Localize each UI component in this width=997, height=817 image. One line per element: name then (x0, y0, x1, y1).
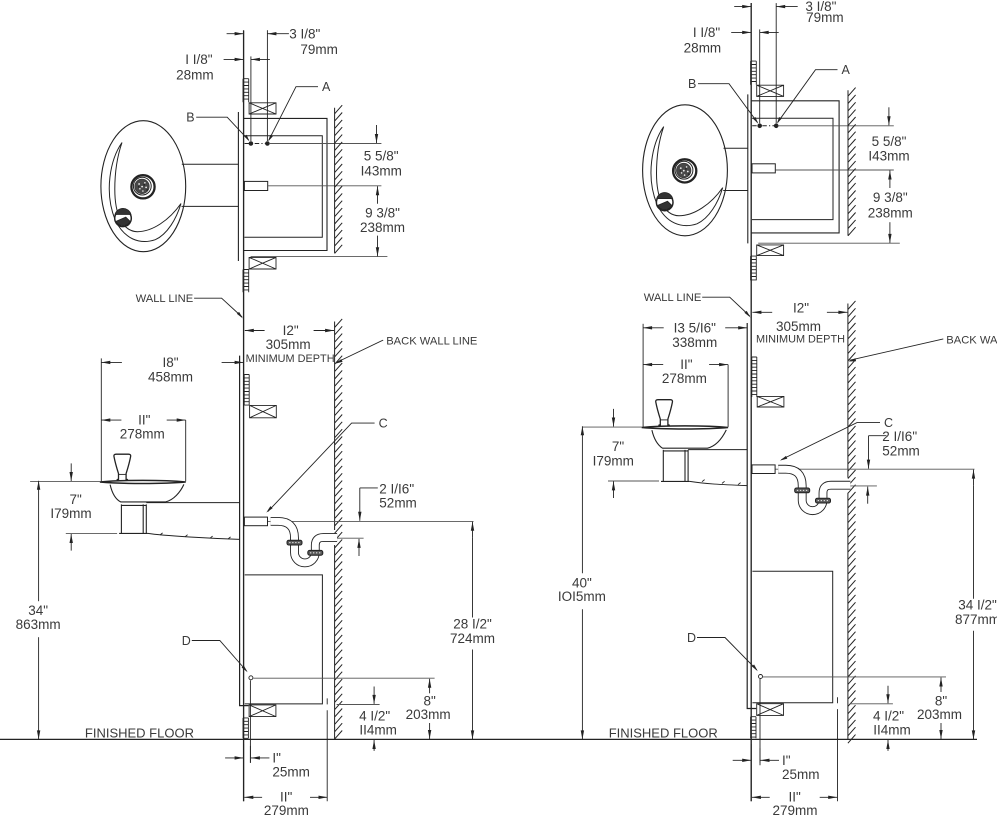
dimension 12in 305mm minimum depth (245, 329, 254, 332)
svg-text:305mm: 305mm (266, 337, 311, 352)
lower rough-in cabinet (245, 575, 323, 704)
leader for WALL LINE (194, 298, 242, 317)
cabinet right flange (326, 698, 328, 801)
dimension 12in 305mm minimum depth (752, 311, 761, 314)
bubbler base joint (119, 473, 127, 475)
svg-text:203mm: 203mm (917, 707, 962, 722)
drain line extension below floor (249, 746, 251, 763)
svg-text:2 I/I6": 2 I/I6" (379, 481, 414, 496)
dimension 5 5/8in 143mm (375, 134, 378, 143)
drain line extension below floor (759, 748, 761, 765)
svg-text:52mm: 52mm (882, 443, 920, 458)
svg-text:I43mm: I43mm (361, 163, 402, 178)
leader for A (778, 70, 838, 123)
drain strainer (plan) outer ring (131, 175, 154, 198)
dimension 9 3/8in 238mm (888, 171, 891, 180)
bowl body (side view) (652, 430, 726, 448)
dimension 8in 203mm (428, 679, 431, 688)
svg-text:79mm: 79mm (806, 10, 844, 25)
wall line upper extension (243, 29, 245, 31)
back wall (side) hatched line (335, 319, 343, 740)
point B marker (249, 142, 253, 146)
lower arm reference line (66, 533, 117, 535)
dimension 11in 278mm (101, 418, 110, 421)
bowl interior crescent shadow (109, 143, 181, 242)
svg-text:458mm: 458mm (148, 369, 193, 384)
dimension 34 I/2" 877mm (972, 470, 975, 479)
P-trap piping (778, 469, 850, 510)
svg-text:4 I/2": 4 I/2" (359, 709, 390, 724)
svg-text:BACK WALL LINE: BACK WALL LINE (946, 334, 997, 346)
svg-text:52mm: 52mm (379, 496, 417, 511)
dimension 2 1/16in 52mm (869, 435, 887, 437)
wood blocking at cabinet bottom (249, 705, 276, 717)
reference line box bottom level (251, 256, 388, 258)
wall line (full height) (243, 31, 245, 802)
reference line box bottom level (758, 242, 900, 244)
dimension I3 5/I6" 338mm (643, 326, 652, 329)
bracket line lower (bowl to wall) (182, 205, 239, 207)
drain shroud below bowl (119, 504, 148, 533)
bowl rim (side view) (642, 426, 728, 429)
lower arm reference line (608, 480, 659, 482)
water supply fitting stub (plan) (752, 164, 775, 173)
svg-text:I8": I8" (162, 355, 178, 370)
svg-text:28mm: 28mm (684, 40, 722, 55)
svg-text:C: C (379, 417, 388, 431)
svg-text:7": 7" (70, 492, 83, 507)
dimension 1in 25mm (235, 756, 244, 759)
cabinet bottom reference line (337, 704, 380, 706)
back wall (plan) hatched line (848, 88, 856, 236)
svg-text:279mm: 279mm (772, 803, 817, 817)
drain strainer speckled core (677, 163, 691, 177)
svg-text:I2": I2" (793, 301, 809, 316)
threaded rod (side view) (244, 375, 249, 406)
dimension 8in 203mm (939, 678, 942, 687)
reference line 9 3/8 level (268, 185, 382, 187)
leader for BACK WALL LINE (336, 340, 383, 363)
dimension 5 5/8in 143mm (887, 116, 890, 125)
wall line upper extension (750, 2, 752, 4)
arm bottom curve to wall (148, 533, 240, 539)
trap outlet reference line (850, 485, 877, 487)
svg-text:MINIMUM DEPTH: MINIMUM DEPTH (246, 353, 335, 365)
threaded rod above blocking (plan) (751, 61, 757, 85)
extension line at point A (266, 30, 268, 141)
svg-text:724mm: 724mm (450, 631, 495, 646)
svg-text:3 I/8": 3 I/8" (289, 26, 320, 41)
svg-text:9 3/8": 9 3/8" (873, 190, 908, 205)
threaded rod (side view) (752, 357, 757, 397)
svg-text:I": I" (272, 751, 281, 766)
wood blocking lower (plan) (757, 245, 784, 256)
leader for C (268, 423, 375, 512)
dimension 7in 179mm (70, 472, 73, 481)
centerline A-B dashed (752, 125, 777, 127)
extension line at point B (250, 56, 252, 141)
back wall (plan) hatched line (335, 105, 343, 253)
fountain bowl (plan view) - oval rim (643, 105, 728, 236)
svg-text:I3 5/I6": I3 5/I6" (674, 320, 717, 335)
svg-text:4 I/2": 4 I/2" (873, 709, 904, 724)
reference line supply level (775, 468, 974, 470)
recessed unit inner box (plan) (752, 118, 833, 219)
dimension 11in 279mm bottom (752, 796, 761, 799)
leader for WALL LINE (702, 297, 750, 316)
dimension 28 I/2" 724mm (471, 522, 474, 531)
wall line (full height) (750, 3, 752, 801)
bubbler (side view) (114, 454, 131, 480)
leader for B (196, 117, 249, 140)
svg-text:I I/8": I I/8" (693, 25, 721, 40)
svg-text:305mm: 305mm (776, 319, 821, 334)
reference line 5 5/8 level (778, 125, 894, 127)
svg-text:5 5/8": 5 5/8" (872, 134, 907, 149)
wall extension below floor (243, 744, 245, 801)
bubbler (side view) (656, 400, 673, 426)
wood blocking (side view) (250, 405, 277, 417)
back wall (side) hatched line (848, 301, 856, 743)
svg-text:863mm: 863mm (16, 617, 61, 632)
arm bottom curve to wall (690, 481, 748, 485)
svg-text:25mm: 25mm (782, 767, 820, 782)
dimension 1 1/8in 28mm (235, 58, 244, 61)
mounting plate line (side view) (240, 356, 249, 706)
svg-text:A: A (322, 80, 331, 94)
svg-text:I2": I2" (283, 323, 299, 338)
svg-text:C: C (884, 416, 893, 430)
leader for A (269, 87, 318, 140)
svg-text:7": 7" (612, 439, 625, 454)
P-trap piping (271, 521, 338, 562)
svg-text:28 I/2": 28 I/2" (453, 617, 492, 632)
extension line bowl rear (727, 365, 729, 427)
svg-text:278mm: 278mm (662, 371, 707, 386)
svg-text:II": II" (138, 412, 151, 427)
slip nut lower (308, 550, 323, 555)
wood blocking (side view) (757, 396, 784, 407)
leader for BACK WALL LINE (849, 339, 943, 360)
dimension 34" 863mm (37, 481, 40, 490)
svg-text:877mm: 877mm (955, 612, 997, 627)
svg-text:79mm: 79mm (300, 42, 338, 57)
svg-text:A: A (842, 63, 851, 77)
bubbler base joint (660, 419, 668, 421)
dimension 3 1/8in 79mm (742, 5, 751, 8)
slip nut upper (287, 540, 302, 545)
wood blocking upper (plan) (249, 103, 276, 114)
reference line 5 5/8 level (269, 143, 382, 145)
slip nut upper (795, 488, 810, 493)
bracket line upper (bowl to wall) (724, 147, 748, 149)
svg-text:338mm: 338mm (672, 335, 717, 350)
recessed unit outer box (plan) (751, 101, 839, 233)
point A marker (774, 124, 778, 128)
cabinet bottom reference line (850, 703, 893, 705)
drain shroud below bowl (661, 450, 690, 482)
svg-text:I79mm: I79mm (50, 506, 91, 521)
wood blocking lower (plan) (249, 257, 276, 269)
line below D to floor (759, 679, 761, 763)
svg-text:WALL LINE: WALL LINE (136, 293, 194, 305)
lower rough-in cabinet (752, 571, 832, 702)
svg-text:FINISHED FLOOR: FINISHED FLOOR (85, 726, 194, 741)
supply stub through wall (244, 517, 267, 526)
svg-text:B: B (186, 111, 194, 125)
threaded rod below blocking (plan) (751, 256, 757, 280)
slip nut lower (816, 498, 831, 503)
svg-text:278mm: 278mm (120, 426, 165, 441)
leader for D (697, 638, 757, 670)
svg-text:25mm: 25mm (272, 765, 310, 780)
water supply fitting stub (plan) (244, 181, 267, 190)
svg-text:9 3/8": 9 3/8" (365, 205, 400, 220)
dimension 1 1/8in 28mm (742, 31, 751, 34)
reference line supply level (268, 520, 474, 522)
drain strainer (plan) outer ring (673, 159, 696, 182)
bracket line lower (bowl to wall) (723, 190, 748, 192)
svg-text:FINISHED FLOOR: FINISHED FLOOR (609, 726, 718, 741)
mounting plate (plan) (747, 94, 749, 243)
svg-text:II4mm: II4mm (359, 723, 397, 738)
svg-text:I I/8": I I/8" (185, 52, 213, 67)
arm top edge to wall (688, 449, 747, 451)
supply stub through wall (752, 465, 775, 474)
svg-text:WALL LINE: WALL LINE (644, 292, 702, 304)
arm bottom tick marks (702, 480, 741, 485)
threaded rod below blocking (plan) (243, 270, 249, 293)
bowl body (side view) (110, 484, 184, 502)
reference line D level (253, 677, 434, 679)
svg-text:D: D (182, 634, 191, 648)
rim reference line (left) (30, 481, 100, 483)
point D circle (249, 676, 253, 680)
svg-text:I": I" (782, 753, 791, 768)
point A marker (266, 142, 270, 146)
svg-text:II": II" (680, 357, 693, 372)
dimension 7in 179mm (612, 418, 615, 427)
wood blocking upper (plan) (757, 85, 784, 96)
line below D to floor (249, 680, 251, 762)
leader for B (698, 84, 758, 123)
wall extension below floor (750, 744, 752, 801)
dimension 9 3/8in 238mm (376, 186, 379, 195)
bowl rim (side view) (100, 480, 186, 483)
svg-text:BACK WALL LINE: BACK WALL LINE (386, 336, 477, 348)
recessed unit outer box (plan) (244, 118, 327, 250)
mounting plate line (side view) (747, 323, 756, 709)
leader for D (192, 641, 247, 672)
dimension 11in 279mm bottom (244, 796, 253, 799)
mounting plate (plan) (237, 112, 239, 261)
svg-text:34 I/2": 34 I/2" (958, 598, 997, 613)
drain strainer inner ring (133, 177, 151, 195)
extension line at point A (775, 3, 777, 123)
svg-text:I43mm: I43mm (868, 148, 909, 163)
dimension 11in 278mm (643, 363, 652, 366)
dimension 3 1/8in 79mm (235, 32, 244, 35)
rim reference line (left) (582, 426, 641, 428)
centerline A-B dashed (245, 143, 269, 145)
svg-text:203mm: 203mm (406, 707, 451, 722)
svg-text:279mm: 279mm (264, 803, 309, 817)
arm top edge to wall (146, 502, 239, 504)
point B marker (758, 124, 762, 128)
drain strainer inner ring (675, 161, 693, 179)
bubbler (plan view) (115, 210, 132, 227)
svg-text:28mm: 28mm (176, 67, 214, 82)
reference line 9 3/8 level (776, 169, 894, 171)
arm bottom tick marks (160, 533, 231, 539)
dimension 4 1/2in 114mm (886, 694, 889, 703)
dimension 40" IOI5mm (581, 426, 584, 435)
svg-text:I79mm: I79mm (593, 453, 634, 468)
threaded rod above blocking (plan) (243, 79, 249, 103)
bubbler (plan view) (656, 194, 673, 211)
trap outlet reference line (337, 537, 364, 539)
bowl interior crescent shadow (651, 127, 723, 226)
finished floor line (0, 738, 977, 740)
svg-text:5 5/8": 5 5/8" (364, 149, 399, 164)
dimension 2 1/16in 52mm (360, 487, 378, 489)
extension line bowl front (100, 358, 102, 481)
svg-text:D: D (687, 631, 696, 645)
fountain bowl (plan view) - oval rim (101, 121, 186, 252)
dimension I8" 458mm (101, 361, 110, 364)
extension line bowl front (642, 324, 644, 427)
extension line bowl rear (185, 420, 187, 481)
svg-text:II4mm: II4mm (873, 723, 911, 738)
leader for C (781, 423, 880, 460)
dimension 1in 25mm (742, 759, 751, 762)
reference line D level (763, 676, 946, 678)
drain strainer speckled core (135, 179, 149, 193)
svg-text:IOI5mm: IOI5mm (558, 589, 606, 604)
svg-text:238mm: 238mm (868, 206, 913, 221)
svg-text:B: B (688, 77, 696, 91)
recessed unit inner box (plan) (244, 136, 322, 237)
extension line at point B (759, 29, 761, 123)
svg-text:MINIMUM DEPTH: MINIMUM DEPTH (756, 334, 845, 346)
svg-text:2 I/I6": 2 I/I6" (882, 429, 917, 444)
dimension 4 1/2in 114mm (372, 695, 375, 704)
threaded rod at floor (751, 717, 756, 739)
threaded rod at floor (243, 718, 248, 738)
svg-text:238mm: 238mm (360, 220, 405, 235)
bracket line upper (bowl to wall) (182, 163, 239, 165)
point D circle (759, 675, 763, 679)
cabinet right flange (837, 697, 839, 801)
wood blocking at cabinet bottom (757, 704, 784, 716)
